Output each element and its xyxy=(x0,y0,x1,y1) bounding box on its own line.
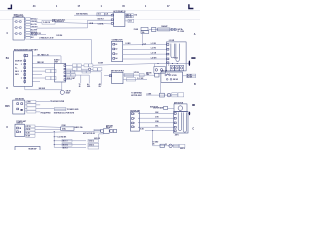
wire 4 xyxy=(123,58,167,60)
wire to relay K1 row1 top xyxy=(74,14,111,16)
row1 continue to bus xyxy=(93,64,155,66)
svg-text:2 WH: 2 WH xyxy=(155,121,159,123)
inline label box A xyxy=(42,20,55,24)
relay K1 right label row2 xyxy=(128,19,134,22)
assembly end box xyxy=(113,129,116,132)
C4 wire row4 xyxy=(25,134,26,136)
svg-text:E2: E2 xyxy=(165,144,167,146)
svg-text:FL 1.25B: FL 1.25B xyxy=(178,31,185,33)
svg-text:C-16 BL: C-16 BL xyxy=(98,24,104,26)
svg-text:A: A xyxy=(194,33,196,36)
connector C2 wire 1 xyxy=(123,44,167,46)
row3 stacked label boxes xyxy=(54,108,66,109)
relay K1 right wire row2 xyxy=(125,20,128,22)
row4 drop 1 xyxy=(80,75,82,83)
audio title xyxy=(54,59,60,64)
row6 label boxes xyxy=(46,76,51,79)
C4 wire row3 xyxy=(25,131,26,133)
chain connector box xyxy=(160,144,164,147)
wire run A (to relay K1 row1) xyxy=(36,21,42,23)
row1 label boxes xyxy=(124,73,133,75)
svg-text:GR 201: GR 201 xyxy=(66,91,71,93)
svg-text:L-1 BK: L-1 BK xyxy=(151,43,157,45)
switch box xyxy=(161,72,183,82)
svg-text:BRN WHT-22: BRN WHT-22 xyxy=(31,33,41,35)
connector S1 title xyxy=(14,14,25,18)
connector S1 box xyxy=(13,17,24,40)
B15 box xyxy=(13,100,25,114)
row4 drop 2 xyxy=(88,75,90,83)
B-box wire row6 xyxy=(32,77,45,79)
shield hairpin loop 2 xyxy=(176,44,179,62)
svg-text:L-8 WH: L-8 WH xyxy=(151,57,157,59)
shield hairpin loop 1 xyxy=(171,44,174,58)
svg-text:UP SW: UP SW xyxy=(172,75,177,77)
shield2 terminal wire xyxy=(188,112,189,114)
branch3 label boxes xyxy=(62,143,72,146)
connector S1 pins xyxy=(16,21,22,35)
relay K2 left pin xyxy=(109,75,111,77)
svg-text:GND BK: GND BK xyxy=(94,138,101,140)
chain label boxes xyxy=(172,93,178,95)
connector S1 wire label column xyxy=(31,19,38,40)
B-box bottom wire to ground xyxy=(25,86,62,90)
connector C2 pin labels xyxy=(115,43,117,60)
ground circle xyxy=(60,90,64,94)
C5 pin labels xyxy=(134,113,135,128)
corner registration mark top-left xyxy=(8,5,12,9)
chain wire xyxy=(153,145,174,147)
B-box pin row labels xyxy=(15,60,22,76)
C4 box xyxy=(15,124,25,136)
assembly input label boxes xyxy=(94,129,100,130)
C4 wire row2 xyxy=(25,128,26,130)
top grid column labels xyxy=(33,5,170,8)
B15 wire row3 xyxy=(25,107,27,109)
row1 label boxes xyxy=(73,64,77,67)
tree branch 3 xyxy=(54,144,86,146)
svg-text:SW B: SW B xyxy=(15,74,19,76)
flat fuse box right of C4 xyxy=(61,127,74,130)
chain fuse flat box xyxy=(158,28,170,31)
C5 wire 4 xyxy=(140,126,175,128)
connector C2 box xyxy=(112,41,123,61)
C5 wire 1 xyxy=(140,112,175,114)
B15 dark pin blob xyxy=(21,109,23,111)
feed connector small box xyxy=(155,73,159,77)
svg-text:IF EQUIPPED: IF EQUIPPED xyxy=(40,113,51,115)
assembly main box xyxy=(103,129,109,134)
svg-text:DOOR SW: DOOR SW xyxy=(15,60,22,62)
svg-text:FUSE: FUSE xyxy=(134,29,138,31)
bottom-left partial box xyxy=(15,146,40,151)
svg-text:BK-Y 2: BK-Y 2 xyxy=(63,141,68,143)
svg-text:BODY: BODY xyxy=(66,92,70,94)
switch exit wire xyxy=(183,75,187,77)
chain feed link xyxy=(149,28,152,30)
row2 circle xyxy=(88,68,91,71)
shield U1 pins xyxy=(167,44,169,64)
C5 pins xyxy=(132,113,134,128)
B-box inner bus xyxy=(24,54,26,84)
B-box xyxy=(14,51,33,86)
bus drop 2 xyxy=(168,64,170,67)
wire run D corner drop xyxy=(90,39,92,64)
svg-text:IGN SW (RUN): IGN SW (RUN) xyxy=(76,14,88,16)
C4 pin marks col2 xyxy=(20,128,21,133)
antenna terminal lens xyxy=(189,61,191,66)
B-box pins xyxy=(24,55,26,83)
B15 wire row1 xyxy=(25,101,27,103)
motor box xyxy=(174,104,187,112)
pin circle 2 xyxy=(160,69,163,72)
svg-text:BLK: BLK xyxy=(31,37,34,39)
shield2 terminal lens xyxy=(189,112,190,116)
row3 drop xyxy=(100,72,102,83)
chain connector small box xyxy=(152,28,156,32)
svg-text:TO GND: TO GND xyxy=(152,142,159,144)
C4 title xyxy=(16,120,26,125)
relay K2 left wire xyxy=(104,75,112,77)
chain wire xyxy=(146,94,172,96)
switch row1 contacts xyxy=(165,74,167,76)
audio wire row4 xyxy=(66,74,89,76)
shield U1 box xyxy=(166,42,186,71)
B-box bus dots xyxy=(20,64,23,79)
svg-text:NOISE FILTER: NOISE FILTER xyxy=(53,101,65,103)
pin circles group box left xyxy=(154,67,166,74)
audio ground drop xyxy=(61,82,63,90)
bus drop 1 xyxy=(154,64,156,67)
tree branch 1 xyxy=(54,136,57,138)
right edge row labels xyxy=(192,33,196,130)
shield2 pins xyxy=(174,113,176,132)
B-box wire row3 xyxy=(32,67,54,69)
motor feed connector xyxy=(164,106,168,109)
row3 label boxes near xyxy=(66,71,70,74)
svg-text:2 BL: 2 BL xyxy=(155,126,158,128)
svg-text:BK-W 2: BK-W 2 xyxy=(63,144,68,146)
audio wire row3 xyxy=(66,71,101,73)
svg-text:1.25 WH: 1.25 WH xyxy=(56,35,63,37)
B15 pins xyxy=(17,103,23,110)
branch up to relay K1 row2 xyxy=(88,20,112,28)
svg-text:ILL+: ILL+ xyxy=(15,64,18,66)
shield2 hairpin 2 xyxy=(183,112,186,132)
svg-text:FUSE: FUSE xyxy=(62,125,66,127)
audio wire row2 xyxy=(66,68,73,70)
wire run C xyxy=(30,34,46,36)
audio wire row1 xyxy=(66,65,73,67)
row4 label boxes xyxy=(66,74,71,77)
relay K1 left label box xyxy=(97,13,104,16)
chain wire xyxy=(152,28,178,30)
audio wire row5 xyxy=(66,79,72,81)
svg-text:GND: GND xyxy=(87,86,90,88)
switch row2 contacts xyxy=(166,78,168,80)
corner registration mark top-right xyxy=(189,4,194,8)
relay K2 box xyxy=(112,72,123,83)
svg-text:B 2W: B 2W xyxy=(26,135,30,137)
svg-text:DN SW: DN SW xyxy=(173,79,179,81)
svg-text:MOTOR 2B: MOTOR 2B xyxy=(150,106,159,108)
audio right pins xyxy=(64,65,66,81)
svg-text:CONNECTOR: CONNECTOR xyxy=(14,16,25,18)
row1 more label box xyxy=(139,73,144,76)
tree bus xyxy=(53,132,55,148)
bus junction dots xyxy=(158,63,159,64)
assembly title xyxy=(106,124,114,129)
chain circle xyxy=(167,93,171,97)
row2 label box xyxy=(126,78,135,81)
B15 wire row4 xyxy=(25,110,27,112)
svg-text:C: C xyxy=(192,127,194,130)
row4 label boxes xyxy=(46,69,51,72)
fuse box upper xyxy=(141,27,148,30)
tree branch 2 xyxy=(54,140,86,142)
B-box wire row1 to audio top xyxy=(32,56,61,64)
svg-text:BK GND: BK GND xyxy=(39,88,46,90)
branch4 label box xyxy=(88,146,99,149)
svg-text:B15: B15 xyxy=(5,105,10,108)
faint header rule 1 xyxy=(0,9,200,11)
tree branch 4 xyxy=(54,146,86,148)
motor circle xyxy=(178,106,183,111)
branch2 label boxes xyxy=(62,139,72,142)
assembly small box xyxy=(101,130,104,133)
svg-text:GND 16: GND 16 xyxy=(180,148,185,150)
B-box wire row2 xyxy=(32,63,54,65)
svg-text:DN 2L: DN 2L xyxy=(26,129,30,131)
B-box top pin xyxy=(26,55,28,57)
B15 wire row2 xyxy=(25,104,27,106)
C5 box xyxy=(130,112,139,131)
svg-text:RED GR: RED GR xyxy=(37,62,44,64)
motor feed wire xyxy=(168,107,175,109)
relay K1 left pins xyxy=(111,14,113,24)
svg-text:BK-R 2: BK-R 2 xyxy=(63,148,68,150)
C5 right edge ticks xyxy=(138,113,140,127)
wire 3 xyxy=(123,53,167,55)
relay K2 right wire row1 xyxy=(123,74,155,76)
svg-text:GR - RED 1.25: GR - RED 1.25 xyxy=(37,54,48,56)
relay K1 right labels row1 xyxy=(126,14,134,16)
svg-text:BLK-WHT: BLK-WHT xyxy=(31,30,38,32)
shield bus wire xyxy=(155,63,189,65)
svg-text:C-27 GR: C-27 GR xyxy=(137,78,144,80)
svg-text:B: B xyxy=(194,83,196,86)
relay K1 box xyxy=(114,13,125,27)
svg-text:YEL-GRN: YEL-GRN xyxy=(31,35,37,37)
svg-text:REM CONT: REM CONT xyxy=(67,78,76,80)
svg-text:0.5 BR: 0.5 BR xyxy=(125,43,131,45)
fuse drop wire xyxy=(142,33,144,44)
svg-text:SHIFT LOCK SOL: SHIFT LOCK SOL xyxy=(52,19,65,21)
row3 label boxes far xyxy=(82,71,86,74)
wire run D long xyxy=(30,38,91,40)
svg-text:JB: JB xyxy=(79,86,81,88)
right edge bold dash xyxy=(191,57,195,59)
svg-text:UP DN: UP DN xyxy=(134,72,140,74)
svg-text:GRN-RED: GRN-RED xyxy=(31,21,38,23)
svg-text:BLU-YEL: BLU-YEL xyxy=(31,24,37,26)
relay K1 right wire row1 xyxy=(125,15,133,17)
C4 pins xyxy=(17,127,19,133)
chain label boxes xyxy=(174,144,179,146)
svg-text:WHT-BLU: WHT-BLU xyxy=(31,19,37,21)
exit label boxes xyxy=(187,74,196,76)
C5 wire 3 xyxy=(140,122,175,124)
chain connector box xyxy=(160,93,165,97)
svg-text:L-6 GN: L-6 GN xyxy=(151,52,157,54)
svg-text:GRN-WHT: GRN-WHT xyxy=(31,27,38,29)
svg-text:L-2 RD: L-2 RD xyxy=(151,48,157,50)
C5 wire 2 xyxy=(140,117,175,119)
shield2 hairpin 1 xyxy=(178,112,181,130)
assembly stub xyxy=(99,134,104,138)
connector S1 wire label boxes xyxy=(26,18,31,40)
relay K2 right wire row2 xyxy=(123,78,147,80)
B-box wire row5 xyxy=(32,74,42,76)
svg-text:RLY: RLY xyxy=(99,86,102,88)
relay K1 left labels xyxy=(97,13,108,26)
junction dot xyxy=(142,44,143,45)
svg-text:2 BK: 2 BK xyxy=(146,74,149,76)
connector S1 pin dots xyxy=(14,21,19,34)
chain circle xyxy=(169,144,173,148)
shield2 box xyxy=(174,111,188,133)
pin circle 1 xyxy=(155,69,158,72)
pin circles right cluster xyxy=(170,65,174,70)
C5 wire 5 to shield xyxy=(145,130,174,132)
wire run B (long to chain) xyxy=(36,27,87,29)
svg-text:IG2 RLY: IG2 RLY xyxy=(98,19,105,21)
svg-text:C: C xyxy=(6,126,8,129)
B-box wire row7 xyxy=(32,81,40,83)
faint header rule 2 xyxy=(0,19,200,21)
svg-text:B-2 BK: B-2 BK xyxy=(187,75,192,77)
audio box xyxy=(55,63,66,82)
connector C2 pins xyxy=(113,43,115,59)
junction drop xyxy=(152,131,154,146)
svg-text:*1: *1 xyxy=(51,101,53,103)
right edge small dash xyxy=(192,104,195,105)
assembly circle xyxy=(110,129,113,132)
connector S1 right stub wires xyxy=(24,19,25,38)
cassette to chain vertical xyxy=(160,82,162,93)
wire 2 xyxy=(123,48,167,50)
fuse box lower xyxy=(141,31,149,34)
svg-text:2 RED-BLK 1.25 W: 2 RED-BLK 1.25 W xyxy=(39,37,53,39)
wire run A continue xyxy=(55,23,111,24)
svg-text:0.5 BR: 0.5 BR xyxy=(98,62,104,64)
left edge row labels xyxy=(5,32,10,129)
chain pin marks xyxy=(171,28,173,30)
svg-text:C-416 18: C-416 18 xyxy=(43,21,50,24)
B-box wire row4 xyxy=(32,70,45,72)
C4 wire row1 xyxy=(25,125,26,127)
